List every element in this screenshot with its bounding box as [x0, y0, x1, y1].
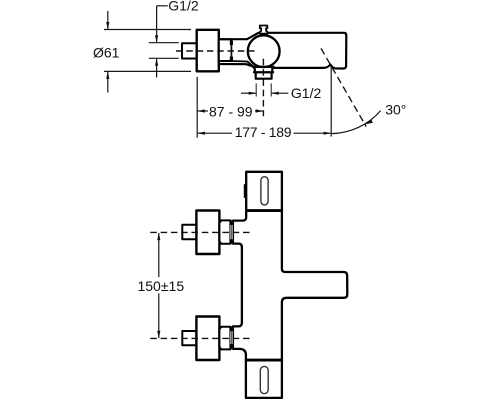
- svg-text:G1/2: G1/2: [168, 0, 199, 14]
- svg-text:87 - 99: 87 - 99: [209, 104, 253, 120]
- svg-text:G1/2: G1/2: [291, 85, 322, 101]
- svg-text:150±15: 150±15: [137, 278, 184, 294]
- svg-text:177 - 189: 177 - 189: [235, 124, 292, 140]
- svg-text:Ø61: Ø61: [93, 44, 120, 60]
- svg-text:30°: 30°: [385, 101, 406, 117]
